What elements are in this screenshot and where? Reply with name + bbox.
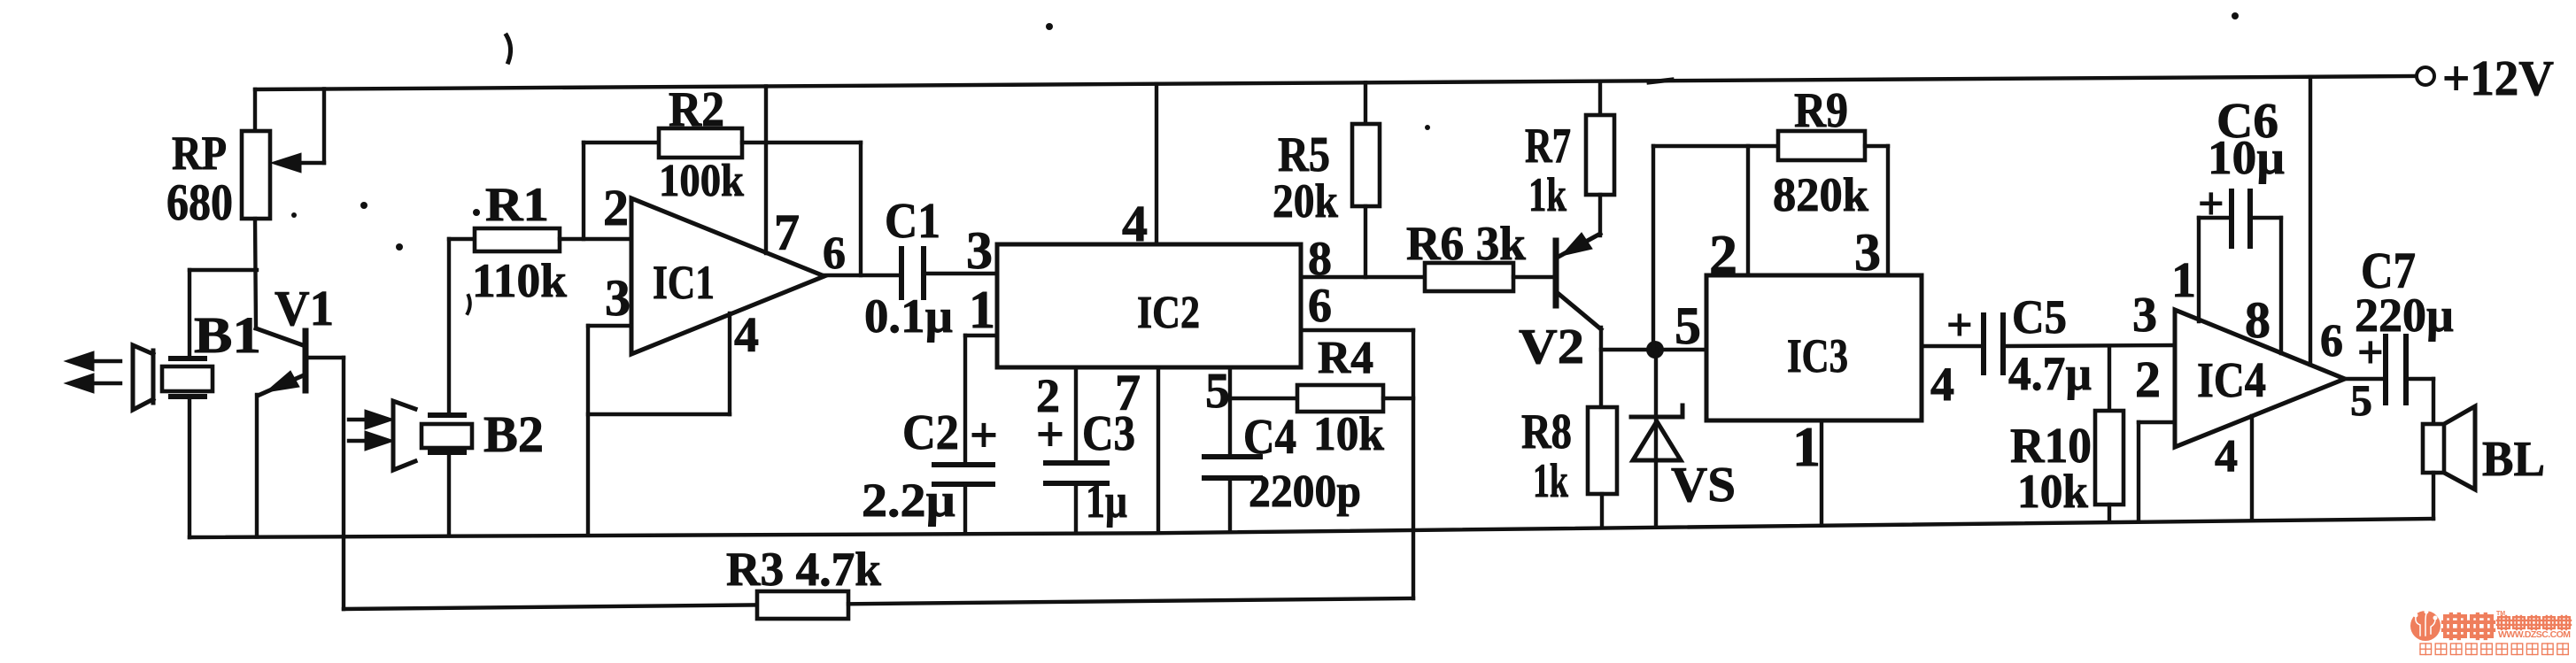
wire IC4 pin4 to ground (2250, 416, 2254, 520)
wire C6 right to pin8 (2250, 216, 2281, 220)
wire IC3 pin2 up (1746, 146, 1750, 275)
svg-text:1: 1 (2171, 253, 2196, 308)
svg-text:10µ: 10µ (2208, 131, 2285, 184)
svg-text:V1: V1 (275, 281, 334, 336)
wire IC3 pin4 out (1922, 344, 1984, 348)
svg-text:C1: C1 (885, 194, 940, 249)
wire IC2 pin8 node (1301, 275, 1425, 279)
transducer B2 (393, 401, 415, 470)
svg-text:IC3: IC3 (1787, 329, 1848, 382)
svg-text:TM: TM (2496, 611, 2505, 617)
op-amp U1 IC1 (631, 198, 824, 354)
svg-text:820k: 820k (1773, 168, 1868, 221)
svg-text:R6 3k: R6 3k (1406, 217, 1526, 270)
svg-text:2: 2 (603, 179, 629, 236)
resistor R9 820k (1778, 131, 1865, 160)
resistor R5 20k (1364, 82, 1367, 124)
svg-text:1: 1 (969, 281, 995, 339)
svg-text:3: 3 (966, 221, 993, 280)
wire IC1 pin2 feedback node (582, 143, 585, 239)
svg-text:VS: VS (1671, 458, 1736, 513)
svg-text:R8: R8 (1521, 405, 1572, 459)
wire IC1 pin3 (588, 324, 631, 328)
wire C5 to IC4 pin3 (2003, 345, 2175, 346)
svg-text:+: + (1946, 300, 1973, 351)
svg-text:R7: R7 (1525, 119, 1571, 173)
svg-text:WWW.DZSC.COM: WWW.DZSC.COM (2498, 629, 2571, 640)
capacitor C6 10u (2229, 191, 2234, 246)
svg-text:IC1: IC1 (653, 256, 715, 309)
wire IC2 pin5 (1228, 367, 1232, 457)
wire C4 to ground (1228, 478, 1232, 528)
wire IC1 pin3 down (586, 326, 590, 534)
svg-text:1k: 1k (1533, 454, 1568, 507)
svg-text:R9: R9 (1794, 83, 1848, 138)
wire B2 bottom to ground (447, 452, 451, 536)
resistor R10 10k (2108, 346, 2111, 411)
svg-text:10k: 10k (2017, 465, 2088, 518)
svg-text:4: 4 (734, 308, 759, 363)
svg-text:B1: B1 (194, 306, 261, 364)
capacitor C4 2200p (1204, 454, 1260, 459)
potentiometer RP 680 (242, 131, 270, 219)
svg-text:4.7µ: 4.7µ (2008, 347, 2092, 400)
wire R9 left loop (1653, 144, 1778, 148)
svg-text:680: 680 (166, 173, 233, 231)
capacitor C1 0.1u (899, 249, 904, 297)
svg-text:2200p: 2200p (1249, 466, 1361, 517)
svg-text:110k: 110k (472, 254, 567, 307)
resistor R3 4.7k (344, 605, 757, 609)
svg-text:6: 6 (1308, 279, 1332, 332)
arrow B2 ultrasound in 1 (349, 418, 370, 421)
svg-text:8: 8 (2245, 291, 2270, 349)
svg-text:1k: 1k (1528, 168, 1566, 221)
capacitor C3 1u (1046, 460, 1107, 466)
resistor R2 100k (584, 141, 659, 144)
svg-text:IC2: IC2 (1137, 288, 1200, 338)
wire RP wiper (322, 89, 326, 164)
svg-text:2: 2 (2135, 351, 2161, 408)
wire V1 emitter to ground (255, 395, 259, 536)
arrow B1 ultrasound out 1 (84, 359, 120, 363)
wire B1 bottom to ground (188, 397, 191, 537)
wire IC1 output (824, 274, 901, 277)
wire C7 to speaker (2406, 377, 2433, 381)
wire +12V top supply rail (255, 76, 2416, 89)
wire IC4 pin1 up (2197, 218, 2201, 321)
wire IC2 pin6 (1301, 328, 1413, 332)
svg-text:3: 3 (1854, 223, 1881, 281)
wire rail to RP (253, 89, 257, 132)
svg-text:4: 4 (2215, 431, 2238, 482)
arrow B2 ultrasound in 2 (349, 439, 370, 443)
svg-text:+12V: +12V (2442, 51, 2554, 106)
svg-text:100k: 100k (659, 156, 744, 206)
resistor R4 10k (1297, 385, 1383, 412)
svg-text:4: 4 (1122, 195, 1148, 252)
svg-text:C4: C4 (1243, 410, 1296, 465)
svg-text:V2: V2 (1519, 320, 1584, 374)
svg-text:2: 2 (1709, 223, 1737, 286)
wire IC3 pin3 up (1886, 146, 1890, 275)
wire B1 top (188, 270, 191, 358)
svg-text:5: 5 (2350, 375, 2372, 425)
transistor V1 (303, 331, 309, 390)
zener diode VS (1631, 415, 1683, 420)
wire C3 to ground (1074, 483, 1078, 530)
capacitor C5 4.7u (1981, 315, 1986, 373)
wire IC4 pin2 (2139, 420, 2175, 424)
wire V2 collector down (1599, 328, 1603, 407)
wire IC3 pin1 to ground (1820, 420, 1823, 524)
wire R2 to output node (859, 143, 863, 275)
wire node up to R9 loop (1652, 146, 1655, 350)
svg-text:+: + (1036, 407, 1064, 462)
svg-text:0.1µ: 0.1µ (864, 289, 953, 343)
svg-text:R4: R4 (1318, 333, 1373, 383)
svg-text:C5: C5 (2012, 290, 2067, 343)
resistor R7 1k (1598, 81, 1602, 115)
svg-text:6: 6 (2320, 316, 2343, 366)
wire IC1 pin4 loop (588, 412, 730, 416)
svg-text:+: + (2357, 328, 2384, 378)
watermark weiku logo (2410, 610, 2571, 655)
wire IC1 pin7 supply (764, 87, 768, 254)
IC U2 IC2 (997, 244, 1301, 367)
wire RP bottom to V1 collector (255, 219, 256, 328)
svg-text:5: 5 (1205, 364, 1230, 419)
svg-text:6: 6 (823, 228, 846, 279)
svg-text:B2: B2 (483, 405, 544, 463)
arrow B1 ultrasound out 2 (84, 382, 120, 385)
node junction dot (1646, 341, 1664, 358)
wire IC2 pin5 to R4 (1230, 397, 1297, 400)
wire IC2 pin7 to ground (1156, 367, 1160, 529)
wire node RP/B1 junction (190, 268, 257, 272)
wire IC2 pin4 supply (1155, 84, 1158, 244)
resistor R1 110k (449, 237, 475, 241)
speck marks (507, 35, 511, 62)
wire V2 collector to IC3 pin5 (1601, 348, 1706, 351)
svg-text:IC4: IC4 (2197, 353, 2266, 408)
wire IC4 output (2345, 377, 2386, 381)
wire V1 base lead (307, 356, 344, 359)
svg-text:7: 7 (774, 204, 800, 261)
speaker BL (2423, 424, 2444, 473)
capacitor C2 2.2u (934, 462, 993, 467)
svg-text:1µ: 1µ (1086, 474, 1127, 528)
svg-text:1: 1 (1792, 415, 1821, 478)
svg-text:C2: C2 (902, 405, 959, 460)
wire C2 to ground (963, 484, 967, 531)
wire V1 base down to R3 (342, 358, 345, 609)
svg-text:2.2µ: 2.2µ (862, 474, 955, 527)
resistor R8 1k (1588, 407, 1617, 494)
wire speaker to ground (2432, 473, 2435, 519)
transistor V2 (1553, 241, 1559, 305)
wire IC2 pin1 (965, 334, 997, 337)
svg-text:+: + (2198, 179, 2224, 229)
svg-text:+: + (970, 408, 998, 463)
wire B2 top to R1 (447, 239, 451, 415)
svg-text:4: 4 (1930, 358, 1954, 411)
svg-text:R3 4.7k: R3 4.7k (726, 543, 881, 596)
svg-text:RP: RP (172, 127, 227, 180)
capacitor C7 220u (2383, 336, 2388, 403)
svg-text:5: 5 (1675, 297, 1701, 355)
resistor R6 3k (1425, 263, 1513, 291)
wire node to VS (1654, 350, 1658, 417)
svg-text:BL: BL (2482, 432, 2545, 487)
wire pin6/R4 down to R3 (1412, 330, 1415, 598)
wire IC2 pin2 (1074, 367, 1078, 463)
svg-text:3: 3 (605, 269, 630, 327)
svg-text:R1: R1 (485, 178, 549, 231)
svg-text:10k: 10k (1313, 407, 1384, 460)
svg-text:20k: 20k (1273, 174, 1338, 227)
wire rail down to IC4 top (2309, 77, 2312, 365)
transducer B1 (133, 345, 153, 410)
wire ground bus (190, 519, 2433, 537)
svg-text:R2: R2 (669, 82, 724, 137)
svg-text:3: 3 (2132, 288, 2157, 343)
terminal +12V (2417, 67, 2434, 85)
svg-text:C3: C3 (1082, 406, 1135, 461)
op-amp U4 IC4 (2175, 310, 2345, 447)
IC U3 IC3 (1706, 275, 1922, 420)
